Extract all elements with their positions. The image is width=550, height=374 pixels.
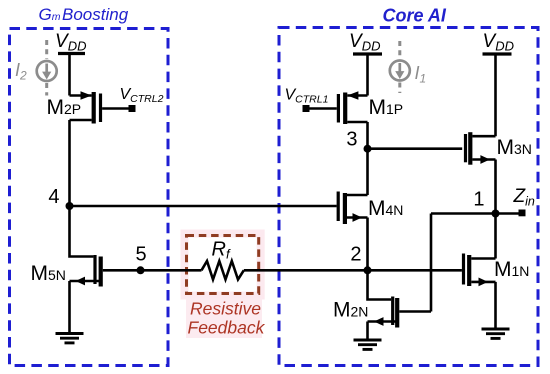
VDD rail right (483, 31, 514, 54)
current source I2 (37, 40, 57, 96)
resistor Rf zigzag (202, 261, 244, 280)
pink halo behind resistive feedback (185, 234, 263, 339)
svg-text:Boosting: Boosting (62, 5, 129, 24)
ground under M5N (56, 334, 84, 343)
svg-text:2: 2 (350, 244, 361, 266)
transistor M1N (464, 254, 496, 287)
node 1 (492, 210, 500, 218)
Resistive Feedback label (188, 299, 266, 338)
transistor M2P (70, 91, 130, 123)
Gm Boosting title (39, 5, 129, 24)
svg-text:4: 4 (48, 186, 59, 208)
svg-text:Core AI: Core AI (383, 6, 447, 26)
svg-text:5: 5 (135, 244, 146, 266)
VCTRL2 terminal (129, 105, 136, 112)
svg-text:Feedback: Feedback (188, 318, 266, 338)
Core AI title (383, 6, 447, 26)
VCTRL1 terminal (303, 105, 310, 112)
wire M1N source to ground (494, 282, 497, 329)
VDD rail left (55, 31, 86, 54)
VDD rail middle (349, 31, 382, 54)
wire VDD-right to M3N drain (494, 54, 497, 136)
wire M3N source down through node1 to M1N drain (494, 160, 497, 259)
Zin terminal (519, 210, 526, 217)
node 5 (137, 266, 145, 274)
wire M1P drain to node3 to M4N drain (366, 122, 369, 195)
node 4 (66, 202, 74, 210)
svg-text:1: 1 (473, 189, 484, 211)
transistor M3N (466, 132, 496, 165)
transistor M5N (70, 255, 101, 334)
wire M2N drain up to node1 rail (430, 214, 433, 312)
wire M4N source to node2 to M2N gate (368, 218, 392, 300)
Gm Boosting box (blue dashed) (10, 29, 169, 366)
wire VDD-mid to M1P source (366, 54, 369, 96)
wire node4 to M4N gate (70, 205, 337, 208)
transistor M1P (310, 91, 368, 124)
Core AI box (blue dashed) (279, 28, 538, 366)
node 2 (364, 266, 372, 274)
transistor M2N (368, 297, 432, 341)
svg-text:3: 3 (346, 129, 357, 151)
wire VDD-left to M2P source (68, 54, 71, 96)
wire node3 to M3N gate (368, 147, 463, 150)
transistor M4N (338, 192, 367, 225)
node 1 rail to Zin (431, 212, 519, 215)
ground under M2N (354, 340, 382, 349)
Resistive Feedback red dashed box (187, 236, 259, 294)
ground under M1N (482, 329, 510, 338)
current source I1 (390, 41, 410, 93)
wire M2P drain to node 4 (68, 120, 71, 206)
svg-text:Resistive: Resistive (190, 299, 261, 319)
feedback wire node5 to resistor to node2 to M1N gate (103, 269, 462, 272)
node 3 (364, 145, 372, 153)
wire node4 down to M5N gate (70, 206, 94, 257)
